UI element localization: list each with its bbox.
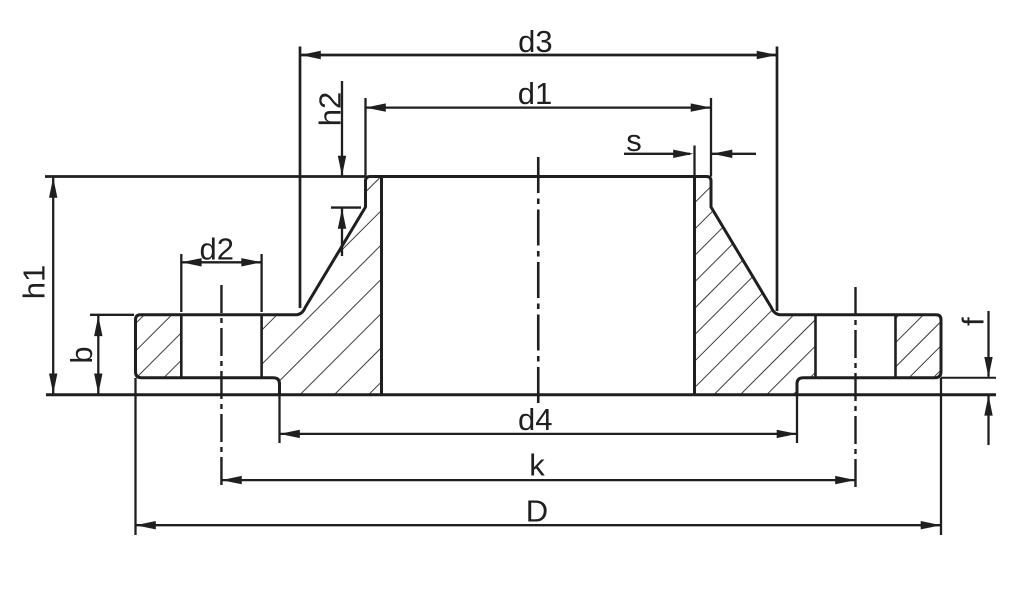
extension line: D left (flange left edge extended down) bbox=[134, 378, 136, 535]
hatch section region: right flange outer segment bbox=[810, 313, 1023, 380]
dimension b down arrow bbox=[94, 374, 102, 394]
dimension s left arrow bbox=[673, 150, 693, 158]
dimension h2 up arrow bbox=[338, 209, 346, 229]
extension line: d2 right (bolt hole right edge extended up) bbox=[260, 254, 262, 312]
outline: left bolt hole right edge bbox=[260, 316, 263, 378]
dimension k right arrow bbox=[835, 476, 855, 484]
dimension h1 up arrow bbox=[49, 178, 57, 198]
dimension d2 left arrow bbox=[181, 258, 201, 266]
reference line: raised face bottom datum full width bbox=[46, 393, 996, 396]
hatch section region: left hub and neck wall bbox=[24, 175, 624, 397]
dimension d1 left arrow bbox=[366, 103, 386, 111]
svg-text:d4: d4 bbox=[518, 402, 552, 437]
extension line: D right (flange right edge extended down) bbox=[940, 378, 942, 535]
svg-text:d2: d2 bbox=[200, 232, 234, 267]
extension line: d3 right (hub base right) bbox=[776, 47, 779, 312]
outline: left bolt hole left edge bbox=[180, 316, 183, 378]
hatch section region: left flange outer segment bbox=[52, 313, 256, 380]
extension line: d2 left (bolt hole left edge extended up) bbox=[180, 254, 182, 312]
svg-text:f: f bbox=[956, 317, 991, 326]
dimension h2 line with down arrow bbox=[341, 81, 343, 176]
dimension D right arrow bbox=[921, 521, 941, 529]
extension line: d1 left (neck outer left) bbox=[364, 98, 366, 177]
outline: bore left edge bbox=[380, 177, 383, 395]
outline: bore right edge bbox=[693, 177, 696, 395]
centerline: left bolt hole axis bbox=[220, 285, 222, 490]
dimension d1 line bbox=[366, 106, 712, 108]
dimension d3 line bbox=[301, 54, 778, 57]
extension line: s tick (bore edge extended up) bbox=[693, 146, 695, 176]
dimension f up arrow bbox=[984, 395, 992, 415]
svg-text:k: k bbox=[529, 447, 545, 482]
dimension h2 up arrow leader bbox=[341, 209, 343, 257]
dimension d2 line bbox=[181, 261, 261, 263]
dimension f bottom leader bbox=[987, 396, 989, 445]
dimension d4 right arrow bbox=[777, 430, 797, 438]
svg-text:h2: h2 bbox=[313, 92, 348, 126]
dimension D left arrow bbox=[136, 521, 156, 529]
svg-text:s: s bbox=[626, 123, 642, 158]
dimension d3 left arrow bbox=[301, 51, 321, 59]
dimension b line bbox=[97, 316, 99, 394]
extension line: d3 left (hub base left) bbox=[299, 47, 302, 309]
extension line: d4 right (raised face right edge) bbox=[796, 395, 798, 443]
dimension d4 line bbox=[280, 433, 798, 435]
dimension b up arrow bbox=[94, 316, 102, 336]
svg-text:b: b bbox=[64, 346, 99, 363]
outline: right bolt hole left edge bbox=[814, 316, 817, 378]
outline: neck top rim bbox=[366, 177, 712, 182]
svg-text:d1: d1 bbox=[518, 76, 552, 111]
dimension s left leader bbox=[624, 153, 690, 155]
dimension d2 right arrow bbox=[241, 258, 261, 266]
hatch section region: right hub and neck wall bbox=[448, 175, 1024, 397]
dimension h2 tick at taper start bbox=[331, 206, 361, 208]
dimension f top leader bbox=[987, 311, 989, 377]
dimension s right arrow bbox=[712, 150, 732, 158]
extension line: d4 left (raised face left edge) bbox=[278, 395, 280, 443]
dimension d3 right arrow bbox=[757, 51, 777, 59]
dimension h1 down arrow bbox=[49, 374, 57, 394]
dimension h1 line bbox=[52, 178, 54, 394]
centerline: right bolt hole axis bbox=[854, 287, 856, 490]
svg-text:d3: d3 bbox=[518, 24, 552, 59]
svg-text:h1: h1 bbox=[17, 265, 52, 299]
dimension k left arrow bbox=[221, 476, 241, 484]
dimension D line bbox=[136, 524, 942, 526]
svg-text:D: D bbox=[526, 494, 548, 529]
dimension d1 right arrow bbox=[691, 103, 711, 111]
dimension k line bbox=[221, 479, 855, 481]
outline: right neck wall taper and flange right profile bbox=[711, 180, 941, 395]
dimension s right leader bbox=[712, 153, 756, 155]
dimension h2 down arrow bbox=[338, 156, 346, 176]
extension line: d1 right (neck outer right) bbox=[710, 98, 712, 177]
dimension d4 left arrow bbox=[280, 430, 300, 438]
centerline: main vertical axis bbox=[537, 157, 540, 403]
extension line: flange bottom extended right (f datum) bbox=[941, 377, 996, 379]
extension line: b top (flange top extended left) bbox=[90, 314, 134, 316]
reference line: neck top extended left (h1 datum) bbox=[45, 175, 366, 178]
outline: left neck wall taper and flange left profile bbox=[136, 180, 366, 395]
dimension f down arrow bbox=[984, 357, 992, 377]
outline: right bolt hole right edge bbox=[894, 316, 897, 378]
